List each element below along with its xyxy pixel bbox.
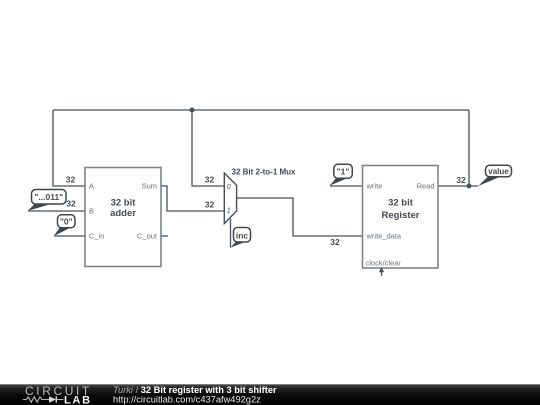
junction Read node: [467, 184, 472, 189]
wire Sum to mux input 1: [161, 186, 224, 211]
node flag inc: [230, 228, 250, 248]
footer bar: [0, 384, 540, 405]
register U3 box: [363, 166, 439, 269]
svg-text:B: B: [89, 207, 94, 216]
wire mux select: [230, 219, 232, 248]
svg-text:"...011": "...011": [34, 192, 63, 202]
node flag "1": [330, 164, 353, 186]
svg-text:32: 32: [330, 237, 340, 247]
node flag "0": [54, 215, 75, 236]
svg-text:0: 0: [227, 184, 231, 191]
svg-text:32: 32: [66, 199, 76, 209]
wire C_in input: [54, 235, 85, 237]
svg-text:32: 32: [205, 200, 215, 210]
wire C_out stub: [161, 235, 168, 237]
wire feedback top horizontal: [53, 109, 469, 111]
logo diode symbol: [49, 396, 56, 402]
svg-text:"0": "0": [60, 217, 73, 227]
svg-text:C_in: C_in: [89, 232, 104, 241]
svg-text:adder: adder: [110, 208, 136, 219]
svg-text:Sum: Sum: [142, 182, 157, 191]
wire write input: [330, 185, 363, 187]
svg-text:value: value: [488, 167, 509, 176]
svg-text:write: write: [366, 182, 383, 191]
adder U1 box: [85, 168, 161, 267]
svg-text:32: 32: [456, 175, 466, 185]
svg-text:1: 1: [227, 207, 231, 214]
svg-text:Turki / 32 Bit register with 3: Turki / 32 Bit register with 3 bit shift…: [113, 385, 277, 395]
svg-text:32 Bit 2-to-1 Mux: 32 Bit 2-to-1 Mux: [232, 168, 297, 177]
svg-text:http://circuitlab.com/c437afw4: http://circuitlab.com/c437afw492g2z: [113, 395, 261, 405]
svg-text:Register: Register: [381, 210, 419, 221]
junction top feedback node: [190, 108, 195, 113]
wire left vertical to adder A: [53, 110, 85, 186]
wire right vertical feedback from Read: [468, 110, 470, 186]
svg-text:clock/clear: clock/clear: [366, 259, 402, 268]
wire junction down to mux input 0: [192, 110, 224, 186]
svg-text:C_out: C_out: [137, 232, 158, 241]
logo resistor symbol: [23, 397, 49, 402]
svg-text:A: A: [89, 182, 94, 191]
svg-text:inc: inc: [236, 230, 249, 240]
svg-text:32 bit: 32 bit: [388, 198, 414, 209]
clock pin arrow: [379, 267, 384, 276]
svg-text:32: 32: [205, 175, 215, 185]
svg-text:write_data: write_data: [366, 232, 402, 241]
svg-text:Read: Read: [417, 182, 435, 191]
wire B input: [28, 210, 85, 212]
node flag value: [478, 165, 511, 186]
svg-text:32: 32: [66, 175, 76, 185]
wire mux output to register write_data: [237, 198, 363, 236]
svg-text:32 bit: 32 bit: [111, 198, 137, 209]
node flag "...011": [28, 190, 66, 211]
svg-text:LAB: LAB: [64, 394, 92, 405]
svg-text:"1": "1": [337, 167, 350, 177]
mux U2 trapezoid: [224, 168, 296, 224]
wire Read output: [438, 185, 478, 187]
